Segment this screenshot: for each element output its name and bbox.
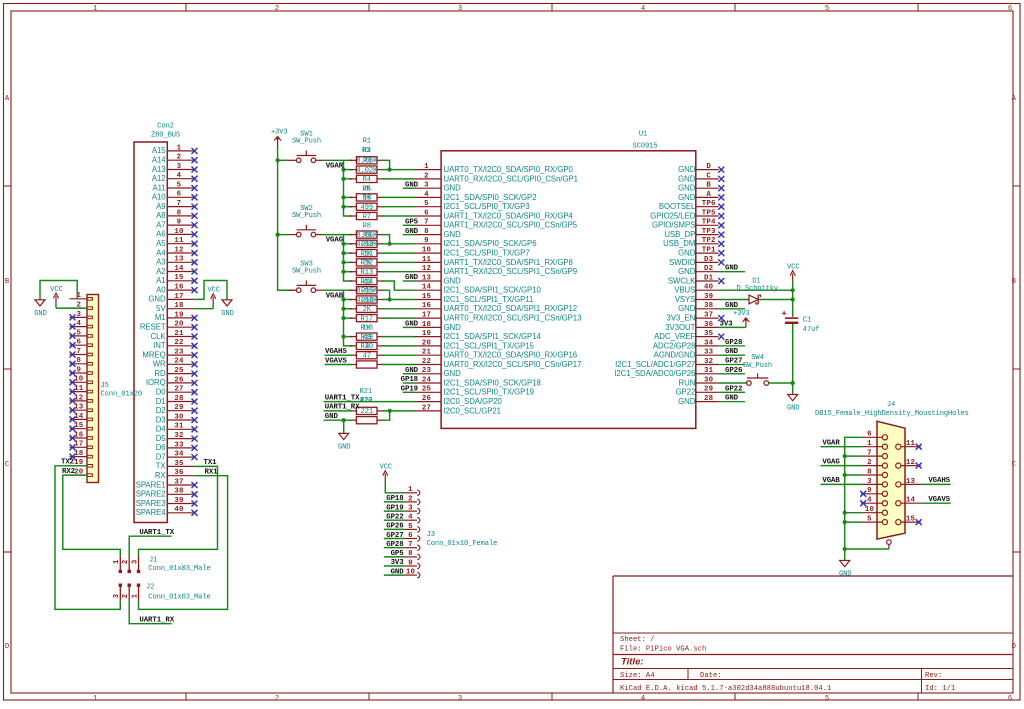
- svg-text:U1: U1: [639, 131, 647, 139]
- wire net TX2: [55, 466, 120, 610]
- svg-text:SW_Push: SW_Push: [292, 268, 321, 276]
- svg-text:30: 30: [174, 413, 184, 421]
- wire VGAVS from J4 pin14: [921, 502, 951, 504]
- svg-text:SWCLK: SWCLK: [668, 276, 696, 285]
- svg-text:13: 13: [906, 478, 916, 486]
- svg-text:A9: A9: [156, 202, 165, 211]
- svg-text:25: 25: [422, 386, 432, 394]
- svg-text:15: 15: [174, 274, 184, 282]
- wire net RX1: [139, 476, 228, 610]
- wire resistor output jog: [381, 290, 389, 299]
- svg-text:VGAB: VGAB: [326, 292, 344, 300]
- resistor R6 1K: [349, 194, 384, 203]
- wire VGAR to resistor row: [344, 169, 353, 171]
- svg-text:6: 6: [867, 431, 872, 439]
- wire GND to R22: [324, 419, 353, 421]
- svg-text:CLK: CLK: [151, 332, 167, 341]
- svg-text:GP27: GP27: [725, 358, 742, 366]
- svg-text:R15: R15: [361, 288, 373, 296]
- svg-text:GND: GND: [34, 310, 46, 318]
- svg-text:221: 221: [361, 408, 373, 416]
- svg-text:I2C1_SDA/SPI0_SCK/GP6: I2C1_SDA/SPI0_SCK/GP6: [444, 239, 537, 248]
- svg-text:GND: GND: [678, 165, 696, 174]
- wire U1 pin 29: [719, 391, 745, 393]
- svg-text:R16: R16: [361, 297, 373, 305]
- wire R21 output to pin27: [381, 410, 414, 412]
- svg-text:I2C1_SCL/SPI0_TX/GP7: I2C1_SCL/SPI0_TX/GP7: [444, 249, 530, 258]
- resistor R2 4.02K: [349, 166, 384, 175]
- svg-text:9: 9: [177, 219, 182, 227]
- svg-text:GND: GND: [405, 181, 419, 189]
- svg-text:VGAG: VGAG: [326, 237, 344, 245]
- svg-text:39: 39: [704, 293, 713, 301]
- svg-text:38: 38: [174, 488, 184, 496]
- junction: [341, 297, 345, 301]
- svg-text:GND: GND: [444, 276, 462, 285]
- junction: [341, 335, 345, 339]
- svg-text:1: 1: [93, 5, 97, 13]
- svg-text:D3: D3: [156, 415, 166, 424]
- svg-text:ADC2/GP28: ADC2/GP28: [653, 341, 695, 350]
- svg-text:VGAHS: VGAHS: [325, 348, 347, 356]
- ground symbol below C1: [787, 395, 799, 413]
- wire U1 pin40 VBUS to VCC rail: [719, 289, 793, 291]
- svg-text:18: 18: [174, 302, 184, 310]
- svg-text:UART0_TX/I2C0_SDA/SPI0_RX/GP16: UART0_TX/I2C0_SDA/SPI0_RX/GP16: [444, 351, 578, 360]
- svg-text:4.02K: 4.02K: [356, 167, 378, 175]
- svg-text:GP26: GP26: [386, 523, 404, 531]
- wire U1 pin30 RUN to SW4: [719, 382, 747, 384]
- svg-text:10: 10: [174, 228, 184, 236]
- svg-text:GP22: GP22: [676, 388, 696, 397]
- svg-text:R3: R3: [363, 158, 371, 166]
- svg-text:GP22: GP22: [386, 514, 403, 522]
- svg-text:32: 32: [704, 358, 713, 366]
- svg-text:A14: A14: [152, 156, 166, 165]
- svg-text:Z80_BUS: Z80_BUS: [151, 132, 180, 140]
- svg-text:I2C1_SDA/SPI1_SCK/GP10: I2C1_SDA/SPI1_SCK/GP10: [444, 286, 542, 295]
- svg-text:2: 2: [867, 459, 872, 467]
- svg-text:1K: 1K: [362, 325, 371, 333]
- svg-text:A5: A5: [156, 239, 166, 248]
- svg-text:29: 29: [174, 404, 183, 412]
- svg-text:1: 1: [424, 163, 429, 171]
- svg-text:24: 24: [174, 358, 184, 366]
- svg-text:UART0_TX/I2C0_SDA/SPI1_RX/GP12: UART0_TX/I2C0_SDA/SPI1_RX/GP12: [444, 304, 578, 313]
- svg-text:GND: GND: [725, 302, 739, 310]
- svg-text:7: 7: [76, 348, 81, 356]
- junction: [388, 297, 392, 301]
- svg-text:30: 30: [704, 376, 714, 384]
- svg-text:4: 4: [408, 514, 413, 522]
- svg-text:22: 22: [422, 358, 431, 366]
- svg-text:9: 9: [867, 487, 872, 495]
- svg-text:RD: RD: [154, 369, 166, 378]
- svg-text:13: 13: [422, 274, 432, 282]
- junction: [843, 473, 847, 477]
- svg-text:UART1_RX: UART1_RX: [325, 404, 360, 412]
- svg-text:GND: GND: [405, 228, 419, 236]
- svg-text:2: 2: [275, 5, 279, 13]
- svg-text:20: 20: [174, 321, 184, 329]
- svg-text:B: B: [1012, 278, 1017, 286]
- svg-text:GND: GND: [678, 193, 696, 202]
- svg-text:14: 14: [174, 265, 184, 273]
- svg-text:SW_Push: SW_Push: [292, 212, 321, 220]
- wire VGAR to resistor row: [344, 206, 353, 208]
- svg-text:TP4: TP4: [702, 219, 716, 227]
- svg-text:IORQ: IORQ: [146, 378, 166, 387]
- svg-text:GND: GND: [405, 321, 419, 329]
- resistor R14: [349, 277, 384, 286]
- wire J3 pin 4: [384, 519, 404, 521]
- no-connect J4 pin12: [916, 463, 922, 469]
- wire J3 pin1 to VCC: [385, 481, 404, 493]
- svg-text:AGND/GND: AGND/GND: [654, 351, 696, 360]
- svg-text:R4: R4: [363, 176, 371, 184]
- svg-text:VCC: VCC: [50, 286, 62, 294]
- junction: [791, 297, 795, 301]
- wire net TX1: [139, 466, 218, 556]
- svg-text:37: 37: [704, 312, 713, 320]
- svg-text:7: 7: [424, 219, 429, 227]
- wire J4 pin to ground bus: [845, 512, 861, 514]
- connector J3 Conn_01x10_Female: [404, 486, 497, 578]
- svg-text:3: 3: [131, 559, 139, 564]
- svg-text:13: 13: [174, 256, 184, 264]
- svg-text:VGAR: VGAR: [822, 440, 840, 448]
- connector Con2 Z80_BUS: [134, 123, 198, 523]
- resistor R19: [349, 333, 384, 342]
- svg-text:Date:: Date:: [700, 672, 722, 680]
- svg-text:J3: J3: [427, 531, 435, 539]
- svg-text:TX: TX: [156, 462, 167, 471]
- junction: [341, 307, 345, 311]
- junction: [276, 233, 280, 237]
- svg-text:TP6: TP6: [702, 200, 716, 208]
- wire resistor output: [381, 169, 414, 171]
- svg-text:I2C1_SCL/SPI1_TX/GP11: I2C1_SCL/SPI1_TX/GP11: [444, 295, 534, 304]
- ground symbol below J4: [839, 561, 851, 579]
- svg-text:3: 3: [76, 311, 81, 319]
- svg-text:I2C0_SCL/GP21: I2C0_SCL/GP21: [444, 406, 501, 415]
- power symbol VCC above C1: [787, 263, 799, 281]
- svg-text:Conn_01x03_Male: Conn_01x03_Male: [148, 593, 210, 601]
- svg-text:UART0_TX/I2C0_SDA/SPI0_RX/GP0: UART0_TX/I2C0_SDA/SPI0_RX/GP0: [444, 165, 574, 174]
- svg-text:DB15_Female_HighDensity_Mousti: DB15_Female_HighDensity_MoustingHoles: [815, 410, 969, 418]
- wire J5 pin1 to GND: [40, 281, 77, 300]
- wire U1 pin 3 label stub: [403, 187, 415, 189]
- wire J3 pin 2: [384, 501, 404, 503]
- wire U1 pin39 VSYS to D1: [719, 299, 749, 301]
- svg-text:36: 36: [174, 469, 184, 477]
- svg-text:B: B: [706, 182, 711, 190]
- IC U1 SC0915 Raspberry Pi Pico: [415, 131, 725, 429]
- wire VGAG to resistor row: [344, 252, 353, 254]
- svg-text:GP26: GP26: [725, 367, 743, 375]
- svg-text:47: 47: [363, 353, 371, 361]
- ground symbol below R22: [338, 433, 350, 451]
- svg-text:C: C: [1012, 461, 1017, 469]
- svg-text:VCC: VCC: [207, 287, 219, 295]
- wire resistor output: [381, 317, 414, 319]
- svg-text:UART1_RX/I2C0_SCL/SPI1_CSn/GP9: UART1_RX/I2C0_SCL/SPI1_CSn/GP9: [444, 267, 578, 276]
- svg-text:1: 1: [177, 144, 182, 152]
- wire VGAHS from J4 pin13: [921, 483, 951, 485]
- svg-text:3: 3: [867, 478, 872, 486]
- wire VGAR bus vertical: [344, 160, 353, 216]
- svg-text:VCC: VCC: [787, 263, 799, 271]
- svg-text:2K: 2K: [362, 186, 371, 194]
- wire J3 pin 9: [384, 565, 404, 567]
- svg-text:21: 21: [422, 349, 432, 357]
- wire resistor output: [381, 243, 414, 245]
- wire U1 pin 24 label stub: [403, 382, 415, 384]
- svg-text:GP27: GP27: [386, 532, 403, 540]
- svg-text:+3V3: +3V3: [271, 129, 288, 137]
- svg-text:GPIO/SMPS: GPIO/SMPS: [652, 221, 695, 230]
- connector J5 Conn_01x20: [70, 292, 143, 482]
- svg-text:24: 24: [422, 376, 432, 384]
- junction: [341, 177, 345, 181]
- svg-text:GP28: GP28: [725, 339, 743, 347]
- svg-text:UART1_RX: UART1_RX: [139, 616, 174, 624]
- no-connect J4 pin11: [916, 444, 922, 450]
- power symbol +3V3 switch rail: [271, 129, 288, 146]
- svg-text:10: 10: [422, 247, 432, 255]
- wire resistor output: [381, 364, 414, 366]
- junction: [843, 511, 847, 515]
- svg-text:R1: R1: [363, 137, 371, 145]
- svg-text:2K: 2K: [363, 306, 372, 314]
- svg-text:34: 34: [174, 451, 184, 459]
- svg-text:2: 2: [424, 172, 429, 180]
- svg-text:18: 18: [422, 321, 432, 329]
- wire VGAB to resistor row: [344, 336, 353, 338]
- svg-text:38: 38: [704, 302, 714, 310]
- svg-text:3V3: 3V3: [720, 320, 734, 328]
- svg-text:2: 2: [408, 495, 413, 503]
- svg-text:9: 9: [408, 559, 413, 567]
- junction: [791, 381, 795, 385]
- connector J2 Conn_01x03_Male: [113, 584, 211, 602]
- svg-text:1: 1: [408, 486, 413, 494]
- svg-text:4: 4: [641, 5, 645, 13]
- wire VGAG to J4 pin2: [820, 465, 861, 467]
- svg-text:A: A: [706, 191, 711, 199]
- svg-text:D: D: [1012, 643, 1016, 651]
- svg-text:7: 7: [867, 450, 872, 458]
- svg-text:WR: WR: [153, 360, 166, 369]
- svg-text:R3: R3: [362, 147, 370, 155]
- junction: [843, 520, 847, 524]
- svg-text:17: 17: [422, 312, 431, 320]
- wire to GND symbol: [343, 420, 345, 433]
- diode D1 D_Schottky: [737, 278, 779, 304]
- junction: [388, 409, 392, 413]
- wire R14 output to pin14: [381, 281, 414, 290]
- svg-text:26: 26: [422, 395, 432, 403]
- svg-text:3: 3: [408, 505, 413, 513]
- svg-text:VGAR: VGAR: [326, 162, 344, 170]
- svg-text:28: 28: [174, 395, 184, 403]
- resistor R22: [349, 417, 384, 424]
- svg-text:GND: GND: [444, 230, 462, 239]
- svg-text:GND: GND: [678, 304, 696, 313]
- wire SW1 left: [278, 159, 288, 161]
- svg-text:4: 4: [867, 497, 872, 505]
- svg-text:Conn_01x20: Conn_01x20: [101, 391, 143, 399]
- svg-text:R7: R7: [363, 213, 371, 221]
- svg-text:SPARE1: SPARE1: [136, 480, 166, 489]
- power symbol +3V3 at pin36: [733, 310, 750, 327]
- resistor R13: [349, 268, 384, 277]
- svg-text:RX1: RX1: [204, 469, 218, 477]
- svg-text:Con2: Con2: [157, 123, 174, 131]
- svg-text:A10: A10: [152, 193, 166, 202]
- svg-text:I2C0_SDA/GP20: I2C0_SDA/GP20: [444, 397, 503, 406]
- wire U1 pin 23 label stub: [403, 373, 415, 375]
- svg-text:6: 6: [424, 209, 429, 217]
- wire U1 pin 34: [719, 345, 745, 347]
- wire resistor output: [381, 345, 414, 347]
- svg-text:499: 499: [361, 204, 373, 212]
- svg-text:2: 2: [275, 695, 279, 703]
- wire resistor output jog: [381, 235, 389, 244]
- junction: [341, 195, 345, 199]
- svg-text:49: 49: [363, 334, 371, 342]
- svg-text:D5: D5: [156, 434, 167, 443]
- svg-text:10: 10: [406, 569, 416, 577]
- title block: [613, 576, 1013, 693]
- svg-text:UART1_TX/I2C0_SDA/SPI1_RX/GP8: UART1_TX/I2C0_SDA/SPI1_RX/GP8: [444, 258, 573, 267]
- wire VGAB bus vertical: [344, 290, 353, 346]
- svg-text:I2C1_SDA/ADC0/GP26: I2C1_SDA/ADC0/GP26: [614, 369, 695, 378]
- svg-text:D7: D7: [156, 452, 166, 461]
- wire U1 pin 25 label stub: [403, 391, 415, 393]
- svg-text:GND: GND: [725, 348, 739, 356]
- svg-text:RX: RX: [155, 471, 167, 480]
- svg-text:21: 21: [174, 330, 184, 338]
- svg-text:33: 33: [174, 441, 184, 449]
- svg-text:D1: D1: [704, 274, 714, 282]
- svg-text:GND: GND: [444, 369, 462, 378]
- svg-text:A13: A13: [152, 165, 166, 174]
- wire SW4 to VCC rail: [768, 382, 792, 384]
- svg-text:R17: R17: [361, 315, 373, 323]
- wire VGAVS: [325, 364, 353, 366]
- wire J4 pin to ground bus: [845, 455, 861, 457]
- resistor R12: [349, 259, 384, 268]
- svg-text:2: 2: [177, 154, 182, 162]
- capacitor C1 47uf: [782, 311, 820, 334]
- svg-text:A12: A12: [152, 174, 166, 183]
- ground symbol right of Con2: [221, 300, 233, 318]
- wire UART1_RX to R21: [324, 410, 353, 412]
- svg-text:A: A: [1012, 95, 1017, 103]
- svg-text:Id: 1/1: Id: 1/1: [925, 685, 955, 693]
- wire SW1 right: [323, 159, 353, 161]
- svg-text:19: 19: [174, 311, 183, 319]
- svg-text:GND: GND: [148, 295, 166, 304]
- wire J3 pin 7: [384, 547, 404, 549]
- svg-text:28: 28: [704, 395, 714, 403]
- wire J4 shell to ground bus: [845, 548, 889, 550]
- svg-text:A1: A1: [156, 276, 165, 285]
- connector J1 Conn_01x03_Male: [113, 556, 211, 573]
- svg-text:GND: GND: [787, 405, 799, 413]
- svg-text:Conn_01x03_Male: Conn_01x03_Male: [148, 565, 210, 573]
- svg-text:GND: GND: [405, 274, 419, 282]
- junction: [341, 251, 345, 255]
- junction: [388, 168, 392, 172]
- svg-text:16: 16: [174, 284, 184, 292]
- svg-text:6: 6: [1008, 5, 1012, 13]
- ground symbol left of J5: [34, 300, 46, 318]
- svg-text:2K: 2K: [363, 260, 372, 268]
- resistor R21 221: [349, 407, 384, 416]
- resistor 47 VGAHS: [349, 352, 384, 361]
- svg-text:GP19: GP19: [401, 386, 418, 394]
- svg-text:5: 5: [76, 329, 81, 337]
- resistor R15 8.06K: [349, 287, 384, 296]
- power symbol VCC above J3: [380, 463, 392, 481]
- svg-text:20: 20: [422, 339, 432, 347]
- wire SW3 left: [278, 289, 288, 291]
- svg-text:KiCad E.D.A. kicad 5.1.7-a302: KiCad E.D.A. kicad 5.1.7-a302d34a888ubun…: [620, 685, 831, 693]
- svg-text:GND: GND: [678, 174, 696, 183]
- svg-text:RESET: RESET: [140, 323, 166, 332]
- svg-text:File: PiPico VGA.sch: File: PiPico VGA.sch: [620, 646, 706, 654]
- svg-text:31: 31: [704, 367, 714, 375]
- svg-text:A2: A2: [156, 267, 165, 276]
- svg-text:A: A: [5, 95, 10, 103]
- svg-text:D0: D0: [156, 388, 167, 397]
- wire U1 pin36 3V3OUT: [719, 326, 746, 328]
- svg-text:37: 37: [174, 478, 183, 486]
- svg-text:C: C: [706, 172, 711, 180]
- wire Con2 pin18 5V to VCC: [194, 308, 213, 310]
- svg-text:GND: GND: [444, 184, 462, 193]
- svg-text:3V3_EN: 3V3_EN: [667, 314, 696, 323]
- svg-text:GP5: GP5: [391, 550, 405, 558]
- svg-text:ADC_VREF: ADC_VREF: [654, 332, 695, 341]
- svg-text:23: 23: [174, 349, 184, 357]
- svg-text:3V3OUT: 3V3OUT: [665, 323, 695, 332]
- wire SW2 right: [323, 234, 353, 236]
- svg-text:VGAB: VGAB: [822, 477, 840, 485]
- svg-text:SW4: SW4: [751, 354, 763, 362]
- svg-text:GP28: GP28: [386, 541, 404, 549]
- svg-text:D_Schottky: D_Schottky: [737, 285, 779, 293]
- resistor VGAVS: [349, 361, 384, 368]
- junction: [341, 242, 345, 246]
- svg-text:A3: A3: [156, 258, 165, 267]
- svg-text:11: 11: [174, 237, 184, 245]
- svg-text:12: 12: [906, 459, 915, 467]
- svg-text:M1: M1: [155, 313, 166, 322]
- svg-text:USB_DM: USB_DM: [663, 239, 695, 248]
- svg-text:7: 7: [177, 200, 182, 208]
- svg-text:R13: R13: [361, 269, 373, 277]
- resistor 2K: [349, 305, 384, 314]
- resistor R16 4.02K: [349, 296, 384, 305]
- svg-text:11: 11: [906, 440, 916, 448]
- svg-text:5: 5: [867, 516, 872, 524]
- svg-text:12: 12: [422, 265, 431, 273]
- svg-text:GP18: GP18: [401, 376, 419, 384]
- svg-text:47uf: 47uf: [803, 326, 820, 334]
